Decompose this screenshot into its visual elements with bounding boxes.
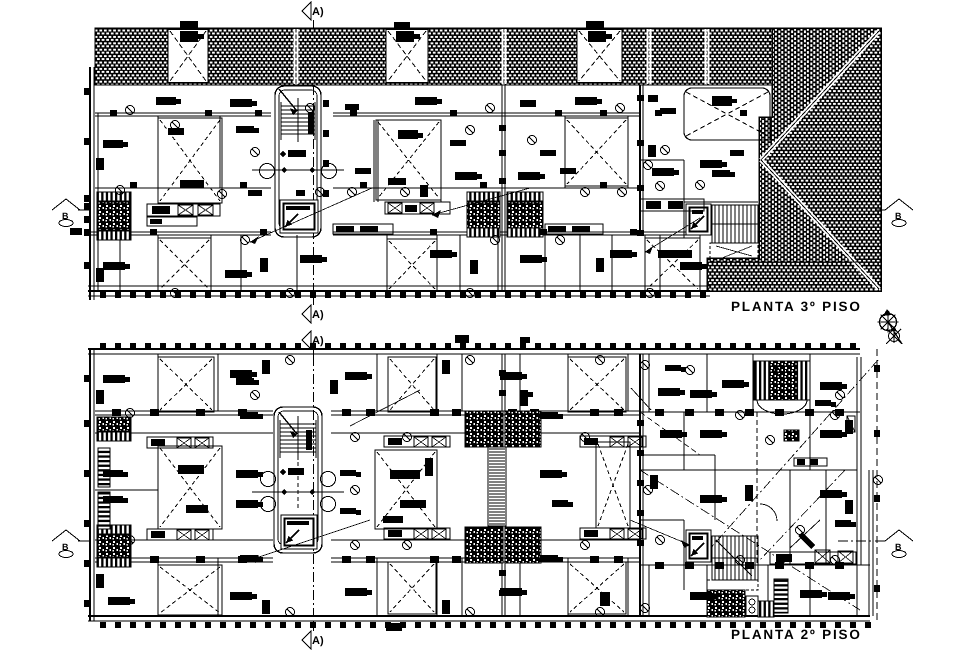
- balcony comb left edge 2nd floor: [98, 448, 110, 529]
- partition walls 2nd floor: [158, 354, 810, 616]
- window ticks upper band interior: [110, 110, 747, 235]
- svg-text:A): A): [312, 635, 324, 647]
- svg-text:PLANTA 3º PISO: PLANTA 3º PISO: [731, 299, 862, 314]
- hip roof ridge upper: [761, 31, 879, 160]
- mid horizontal walls 3rd floor: [88, 188, 707, 235]
- bathroom block left 3rd floor: [70, 192, 131, 240]
- upper hall furniture: [126, 97, 728, 168]
- hip roof hatch right side: [707, 28, 881, 291]
- section line A-A dashdot top plan: [313, 85, 315, 300]
- svg-text:PLANTA 2º PISO: PLANTA 2º PISO: [731, 627, 862, 642]
- right elevator 2nd floor: [686, 530, 711, 562]
- kitchen counters left 3rd floor: [147, 204, 220, 226]
- bathroom clusters 2nd floor left: [97, 417, 131, 567]
- outer wall left 3rd floor: [90, 67, 98, 300]
- hip roof ridge lower: [761, 160, 879, 289]
- roof skylight 2: [386, 30, 428, 83]
- party wall jambs 3rd floor: [450, 95, 644, 236]
- service stair strip center 2nd floor: [488, 447, 506, 526]
- room partitions lower row 3rd floor: [120, 235, 700, 291]
- outer wall bottom 3rd floor: [88, 286, 710, 296]
- upper hall wall y113: [95, 113, 640, 116]
- X closets 2nd floor lower row: [158, 565, 222, 615]
- top wall ticks 2nd floor: [100, 343, 856, 349]
- marker A bottom 2nd floor: [302, 621, 324, 649]
- dimension leaders 3rd floor: [250, 188, 700, 254]
- roof band joints: [295, 29, 709, 84]
- section line A-A dashdot 2nd floor: [313, 356, 315, 616]
- central elevator 3rd floor: [280, 200, 318, 233]
- central X hall 2nd floor: [375, 450, 437, 529]
- boundary dashed right 2nd floor: [874, 349, 880, 621]
- bottom wall ticks 2nd floor: [100, 622, 871, 628]
- right stair core 2nd floor: [707, 536, 758, 590]
- rooms right of left X-room 3rd floor: [236, 126, 262, 196]
- vent bar diagonal: [790, 520, 820, 549]
- corridor storage bars 3rd floor: [333, 199, 704, 258]
- door arc right wing: [760, 504, 777, 521]
- bathroom clusters 2nd floor center: [465, 411, 541, 563]
- right wing mid details 2nd floor: [700, 416, 855, 501]
- bottom right bath cluster: [707, 579, 788, 617]
- right wing extra furniture 2nd floor: [650, 420, 856, 535]
- furniture lower rooms 3rd floor: [96, 140, 707, 282]
- central elevator 2nd floor: [281, 515, 317, 549]
- corridor door jambs 2nd floor: [112, 409, 623, 563]
- section marker A top 2nd floor: [302, 331, 324, 356]
- bottom right counters: [770, 550, 856, 600]
- marker B left 2nd floor: [52, 530, 90, 558]
- core wall jamb ticks 3rd floor: [323, 100, 329, 197]
- vent blobs above roof band: [180, 21, 604, 28]
- corridor walls 2nd floor: [95, 411, 870, 565]
- bathroom cluster center 3rd floor: [467, 192, 543, 237]
- bottom wall window ticks 3rd floor: [100, 292, 706, 298]
- right wing rooms clutter 3rd floor: [648, 95, 744, 190]
- outer walls 2nd floor: [88, 349, 873, 621]
- marker B left top plan: [52, 199, 90, 227]
- marker A bottom of top plan: [302, 296, 324, 323]
- north compass: [878, 309, 903, 344]
- central stair core 2nd floor: [274, 407, 322, 553]
- right wing top beds: [631, 365, 847, 455]
- roof skylight 1: [168, 30, 208, 83]
- lower room furniture 2nd floor: [96, 412, 717, 614]
- kitchen counters 2nd floor: [147, 436, 646, 540]
- small compass top right 2nd floor: [886, 326, 902, 344]
- chimney blobs near walls 2nd floor: [386, 335, 644, 631]
- svg-text:A): A): [312, 309, 324, 321]
- right wing roof pitch dashdot lines: [640, 360, 878, 610]
- room partitions upper row 3rd floor: [158, 85, 643, 291]
- central X room 3rd floor: [376, 120, 441, 200]
- svg-text:A): A): [312, 6, 324, 18]
- left wall ticks 3rd floor: [84, 88, 90, 269]
- right elevator 3rd floor: [686, 204, 711, 235]
- X room upper left 3rd floor: [158, 118, 222, 203]
- roof strip top edge line: [707, 261, 881, 263]
- left wall ticks 2nd floor: [84, 375, 90, 607]
- section marker A top: [302, 2, 324, 28]
- rounded X room top right: [684, 88, 770, 140]
- X closet lower right: [645, 238, 700, 291]
- X closet lower left: [158, 238, 211, 291]
- roof hatch band: [95, 28, 772, 85]
- door knobs 2nd floor: [126, 356, 883, 617]
- roof skylight 3: [577, 30, 622, 83]
- door knobs 3rd floor: [116, 121, 665, 298]
- X closets 2nd floor upper row: [158, 357, 214, 412]
- lobby door arcs 3rd floor: [260, 164, 337, 179]
- X closet lower mid: [387, 239, 437, 291]
- right stair core 3rd floor: [640, 160, 758, 258]
- X rooms 2nd floor inner: [158, 446, 222, 529]
- marker B right top plan: [875, 199, 913, 227]
- dimension leaders 2nd floor: [250, 390, 690, 563]
- marker B right 2nd floor: [838, 530, 913, 558]
- rooms beside core 2nd floor: [236, 378, 361, 515]
- central stair core 3rd floor: [252, 86, 344, 237]
- X closet upper right: [565, 118, 628, 186]
- kitchen counter center 3rd floor: [385, 202, 450, 214]
- right wing mid walls 2nd floor: [640, 409, 857, 569]
- right wing stair block top 2nd floor: [754, 361, 810, 414]
- upper room furniture 2nd floor: [96, 360, 717, 508]
- lobby door arcs 2nd floor: [252, 472, 344, 512]
